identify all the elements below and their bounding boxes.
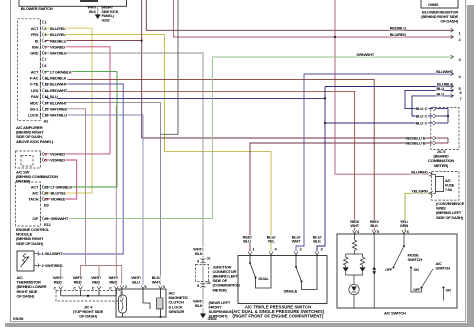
svg-text:2: 2	[125, 285, 127, 289]
wire RED/BLK amplifier pin10 to A/C switch pin5	[45, 78, 374, 231]
A/C on-off switch	[413, 261, 451, 301]
wire BLU/WHT blower resistor pin4 to pressure switch pin2	[296, 74, 453, 252]
svg-text:LOCK: LOCK	[28, 113, 39, 118]
svg-text:BLU: BLU	[415, 106, 423, 111]
svg-text:RED/WHT: RED/WHT	[50, 88, 68, 93]
svg-text:WHT/BLK: WHT/BLK	[50, 51, 67, 56]
wire WHT/RED bus to clutch pin2 and J/C4 pins	[81, 266, 122, 286]
wire BLU/RED blower resistor pin2	[173, 0, 453, 37]
svg-text:F-AC: F-AC	[30, 76, 39, 81]
svg-text:BLK: BLK	[313, 239, 321, 244]
svg-text:WHT/BLU: WHT/BLU	[50, 113, 67, 118]
svg-text:BLU: BLU	[415, 121, 423, 126]
wire BLU to J/C5 pin C3	[325, 122, 433, 124]
svg-text:SIDE OF DASH): SIDE OF DASH)	[16, 241, 44, 246]
resistor R1 ladder and LED inside A/C switch	[344, 234, 365, 308]
wire BLU blower resistor pin7 loop to J/C5 pin C2	[412, 96, 453, 116]
A/C triple pressure switch	[232, 234, 327, 318]
svg-text:J2: J2	[207, 257, 211, 261]
svg-text:BLK: BLK	[195, 303, 203, 308]
svg-text:SUPPORT): SUPPORT)	[209, 314, 229, 319]
svg-text:TACH: TACH	[28, 197, 38, 202]
svg-text:BLU: BLU	[132, 279, 140, 284]
wire BLU trunk vertical to pressure switch pin3	[317, 87, 325, 252]
svg-text:BLU/YEL: BLU/YEL	[50, 26, 66, 31]
svg-text:WHT/RED: WHT/RED	[50, 107, 67, 112]
svg-text:OFF: OFF	[413, 288, 421, 292]
svg-text:BLU/YEL: BLU/YEL	[51, 191, 67, 196]
wire BLU/WHT amplifier pin11 to thermistor pin1	[38, 84, 124, 254]
svg-text:LED: LED	[31, 88, 39, 93]
svg-text:RED/BLK: RED/BLK	[50, 76, 67, 81]
svg-text:8: 8	[197, 284, 199, 288]
svg-text:VIO/RED: VIO/RED	[50, 152, 65, 157]
svg-text:FRS: FRS	[31, 32, 39, 37]
svg-text:SWITCH: SWITCH	[408, 257, 423, 262]
svg-text:F-TE: F-TE	[30, 82, 39, 87]
svg-text:BLU/RED: BLU/RED	[411, 169, 428, 174]
wire BLU/BLK blower resistor pin5	[325, 86, 453, 88]
svg-text:GRN/WHT: GRN/WHT	[356, 52, 374, 57]
svg-text:RED/BLU: RED/BLU	[390, 25, 407, 30]
wire WHT/RED riser to J/C4 pin4	[115, 106, 117, 266]
svg-text:ID: ID	[35, 38, 39, 43]
svg-text:GRN/WHT: GRN/WHT	[51, 216, 69, 221]
wire VIO/RED amplifier pin5 to meter pin C	[44, 47, 110, 154]
wire BLU/WHT amplifier pin14 stub	[45, 103, 161, 285]
svg-text:(RIGHT FRONT OF ENGINE COMPART: (RIGHT FRONT OF ENGINE COMPARTMENT)	[233, 313, 324, 318]
svg-text:ACT: ACT	[31, 26, 39, 31]
svg-text:8: 8	[197, 259, 199, 263]
svg-text:A/C SWITCH: A/C SWITCH	[384, 310, 406, 315]
svg-text:VIO/RED: VIO/RED	[51, 197, 66, 202]
blower switch box (cut off at top)	[19, 0, 127, 11]
svg-text:YEL: YEL	[267, 239, 275, 244]
svg-text:PANEL): PANEL)	[102, 14, 115, 18]
svg-text:SINGLE: SINGLE	[284, 289, 298, 294]
A/C switch assembly	[337, 219, 457, 315]
svg-text:B: B	[423, 141, 426, 146]
svg-text:ON: ON	[446, 289, 452, 293]
wire WHT/BLK amplifier pin6 to ground G104	[45, 53, 203, 314]
svg-text:BLU: BLU	[436, 86, 444, 91]
svg-text:7.5A: 7.5A	[445, 188, 452, 192]
svg-text:2 WHT/RED: 2 WHT/RED	[42, 263, 63, 268]
A/C magnetic clutch and lock sensor	[116, 275, 188, 318]
wire WHT/RED amplifier pin15 to J/C4	[45, 109, 86, 266]
blower resistor pin labels and numbers	[356, 25, 462, 101]
svg-text:BLU: BLU	[415, 114, 423, 119]
svg-text:C/F: C/F	[33, 216, 40, 221]
engine control module connector	[16, 182, 73, 246]
wire GRN/WHT ECM pin29 to blower resistor pin3	[44, 57, 453, 219]
svg-text:SG-1: SG-1	[30, 107, 39, 112]
svg-text:VIO/RED: VIO/RED	[50, 45, 65, 50]
svg-text:1: 1	[145, 285, 147, 289]
wire WHT/BLK blower switch to ground G202	[97, 6, 99, 15]
svg-text:K9U92: K9U92	[13, 317, 24, 321]
junction dots	[141, 36, 337, 124]
svg-text:BLU/RED: BLU/RED	[390, 32, 407, 37]
ground G202	[87, 6, 118, 23]
svg-text:METER): METER)	[213, 287, 228, 292]
svg-text:IGN: IGN	[32, 45, 39, 50]
svg-text:OF DASH): OF DASH)	[17, 293, 35, 298]
svg-text:RED: RED	[92, 279, 100, 284]
junction connectors J2 J3 and ground G104	[193, 247, 240, 322]
svg-text:BLU/WHT: BLU/WHT	[50, 100, 68, 105]
svg-text:OHMS: OHMS	[428, 3, 439, 7]
svg-text:FUSE: FUSE	[445, 183, 455, 187]
svg-text:BLOWER SWITCH: BLOWER SWITCH	[21, 6, 53, 11]
svg-text:C: C	[425, 121, 428, 126]
svg-text:METER): METER)	[434, 163, 449, 168]
svg-text:BLU/WHT: BLU/WHT	[50, 82, 68, 87]
wire BLU/YEL amplifier pin2 to ECM pin26	[44, 28, 92, 193]
svg-text:WHT: WHT	[292, 239, 301, 244]
svg-text:ACT: ACT	[31, 185, 39, 190]
wire WHT/BLU amplifier pin16 to clutch pin1	[45, 115, 143, 285]
svg-text:METER): METER)	[16, 179, 31, 184]
svg-text:DUAL: DUAL	[259, 276, 270, 281]
svg-text:RED/BLU: RED/BLU	[405, 141, 422, 146]
wire RED/BLU blower resistor pin1	[146, 0, 453, 30]
wire LT GRN/BLK amplifier pin9 to ECM pin23	[44, 72, 117, 187]
svg-text:ON: ON	[414, 268, 420, 272]
wire BLU amplifier pin13 long line	[45, 96, 325, 98]
svg-text:A/C: A/C	[32, 191, 39, 196]
svg-text:GND: GND	[30, 51, 39, 56]
wire WHT/RED thermistor pin2 to J/C4	[38, 266, 61, 286]
svg-text:RED/BLU: RED/BLU	[50, 38, 67, 43]
svg-text:GRN: GRN	[400, 223, 409, 228]
svg-text:1 BLU/WHT: 1 BLU/WHT	[42, 251, 63, 256]
wire YEL/GRN fuse to A/C switch pin6	[405, 193, 429, 230]
A/C thermistor	[17, 251, 63, 298]
svg-text:WHT: WHT	[350, 223, 359, 228]
junction connector J/C 5	[405, 106, 459, 168]
junction connector J/C 4	[53, 275, 121, 319]
svg-text:LT GRN/BLK: LT GRN/BLK	[51, 185, 73, 190]
svg-text:A/C: A/C	[445, 179, 451, 183]
wire RED/BLU to junction connector B row1	[142, 137, 433, 139]
svg-text:BLK: BLK	[89, 10, 96, 14]
svg-text:3: 3	[163, 285, 165, 289]
svg-text:BLU: BLU	[243, 239, 251, 244]
svg-text:SENSOR: SENSOR	[169, 309, 185, 314]
wire RED/BLU to junction connector B row2 and pressure switch pin1	[250, 143, 433, 252]
wire BLK/WHT riser to clutch pin3	[161, 0, 179, 134]
svg-text:FAN: FAN	[31, 94, 39, 99]
wire RED/WHT amplifier pin12 to A/C switch pin4	[45, 90, 355, 230]
A/C indicator (combination meter) connector	[16, 151, 66, 184]
svg-text:WHT: WHT	[152, 279, 161, 284]
svg-text:RED: RED	[74, 279, 82, 284]
svg-text:ACT: ACT	[31, 69, 39, 74]
svg-text:VIO/RED: VIO/RED	[50, 158, 65, 163]
svg-text:C: C	[425, 106, 428, 111]
wire VIO/RED meter pin C to ECM pin27	[44, 160, 77, 199]
svg-text:RED: RED	[54, 279, 62, 284]
mode switch	[385, 234, 422, 292]
wire BLU blower resistor pin6 loop to J/C5 pin C1	[405, 90, 453, 108]
wire BLU/RED drop to A/C fuse	[335, 0, 429, 174]
svg-text:ABOVE KICK PANEL): ABOVE KICK PANEL)	[16, 139, 54, 144]
svg-text:LT GRN/BLK: LT GRN/BLK	[50, 69, 72, 74]
svg-text:SIDE OF DASH): SIDE OF DASH)	[436, 215, 464, 220]
A/C fuse 7.5A inside convenience wiring block	[411, 169, 464, 219]
svg-text:BLU/WHT: BLU/WHT	[436, 69, 454, 74]
svg-text:OFF: OFF	[385, 268, 393, 272]
svg-text:BLU: BLU	[436, 91, 444, 96]
wire BLU/YEL amplifier pin3 to pressure switch pin4	[45, 34, 271, 251]
svg-text:G202: G202	[102, 19, 110, 23]
svg-text:OF DASH): OF DASH)	[440, 19, 458, 24]
svg-text:RED: RED	[109, 279, 117, 284]
A/C switch pin5 line with inline connector	[372, 234, 376, 308]
svg-text:YEL/GRN: YEL/GRN	[411, 188, 428, 193]
svg-text:SWITCH: SWITCH	[436, 265, 451, 270]
svg-text:BLU/YEL: BLU/YEL	[50, 32, 66, 37]
A/C amplifier connector U1	[16, 19, 72, 144]
svg-text:BLK: BLK	[195, 251, 203, 256]
blower resistor box (cut off at top)	[421, 0, 459, 24]
svg-text:OF DASH): OF DASH)	[79, 314, 97, 319]
svg-text:BLK: BLK	[370, 223, 378, 228]
wire RED/BLU amplifier pin4 riser	[45, 0, 142, 138]
svg-text:BLU: BLU	[50, 94, 58, 99]
svg-text:MDC: MDC	[30, 100, 39, 105]
svg-text:C: C	[425, 114, 428, 119]
